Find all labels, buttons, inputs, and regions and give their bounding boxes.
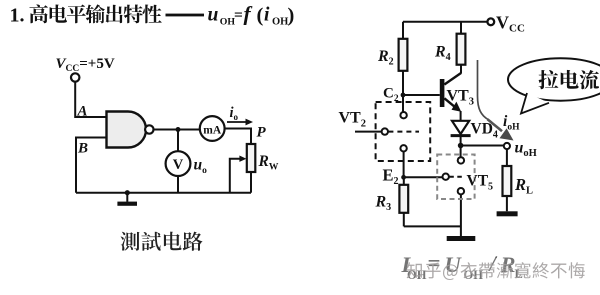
ground (test circuit) xyxy=(125,190,130,195)
svg-text:A: A xyxy=(77,104,88,120)
potentiometer RW wiper arrowhead xyxy=(239,156,246,162)
svg-text:=: = xyxy=(234,7,243,24)
ground (right circuit) xyxy=(447,236,476,241)
wire C2 node down to VT2 box xyxy=(402,95,404,112)
wire VT5 base dashes xyxy=(449,176,464,178)
wire RL stems xyxy=(506,149,508,211)
dashed box VT2 xyxy=(376,102,431,161)
wire E2 node to VT5 base circle xyxy=(404,176,443,178)
svg-text:V: V xyxy=(173,157,184,173)
caption 测试电路 xyxy=(121,232,203,251)
wire R2 stems xyxy=(402,22,404,95)
watermark overlay xyxy=(399,258,600,285)
wire R4 top stem xyxy=(460,22,462,74)
wire diode to output node xyxy=(460,137,462,157)
title formula u_OH = f(i_OH) xyxy=(208,1,295,27)
node E2 junction xyxy=(401,175,406,180)
ground (RL) xyxy=(497,211,518,216)
VT2 emitter circle xyxy=(400,145,406,151)
formula I_OH = U_OH / R_L xyxy=(401,251,523,282)
wire C2 node to VT3 base xyxy=(403,94,440,96)
wire bottom rail xyxy=(76,192,251,194)
transistor VT3 collector xyxy=(444,73,461,85)
resistor R3 xyxy=(399,185,408,213)
potentiometer RW body xyxy=(247,144,256,172)
wire VCC top rail xyxy=(403,21,491,23)
diode VD4 xyxy=(452,121,469,134)
resistor RL xyxy=(503,166,512,196)
wire VCC terminal to A input xyxy=(75,82,106,117)
resistor R2 xyxy=(399,39,408,71)
wire VT3 emitter to diode xyxy=(460,111,462,121)
wire gate output xyxy=(154,129,200,131)
svg-text:P: P xyxy=(257,125,267,141)
NAND gate output bubble xyxy=(145,125,153,133)
wire VT2 base dashes xyxy=(388,131,419,133)
VT5 emitter circle xyxy=(458,188,464,194)
ammeter mA xyxy=(200,116,225,141)
wire V-meter branch xyxy=(177,130,179,193)
wire RW wiper xyxy=(230,159,244,193)
wire RW bottom stem xyxy=(250,172,252,193)
node output junction xyxy=(458,143,464,149)
VCC terminal right xyxy=(487,18,494,25)
title text 1. 高电平输出特性 xyxy=(10,4,205,26)
wire VT2 base left xyxy=(355,131,382,133)
resistor R4 xyxy=(457,34,466,65)
wire bottom to ground xyxy=(404,194,461,236)
wire R3 stems xyxy=(403,177,405,226)
VT2 collector circle xyxy=(400,112,406,118)
voltmeter V u_o xyxy=(166,151,191,176)
VT5 collector circle xyxy=(458,157,464,163)
node C2 junction xyxy=(401,93,406,98)
svg-text:mA: mA xyxy=(203,124,222,136)
transistor VT3 emitter with arrow xyxy=(444,98,456,108)
NAND gate U1 body xyxy=(107,112,147,148)
svg-text:i: i xyxy=(264,4,270,25)
svg-text:1.: 1. xyxy=(10,4,25,26)
output terminal u_oH xyxy=(504,143,510,149)
transistor VT3 base bar xyxy=(440,79,445,107)
VT5 base circle xyxy=(443,174,449,180)
svg-text:OH: OH xyxy=(272,16,288,27)
svg-text:B: B xyxy=(77,141,88,157)
VCC terminal circle xyxy=(71,73,79,81)
wire output node to terminal xyxy=(461,145,504,147)
VT2 base circle xyxy=(382,128,388,134)
dashed box VT5 xyxy=(437,155,474,200)
wire VT2 box to E2 node xyxy=(403,152,405,178)
pull-current arrow xyxy=(478,60,489,120)
wire input B to ground rail xyxy=(76,138,107,193)
speech bubble 拉电流 xyxy=(508,58,600,100)
svg-text:VCC=+5V: VCC=+5V xyxy=(56,56,115,74)
wire mA to P corner and down to RW xyxy=(225,129,251,145)
node gate output junction xyxy=(176,127,181,132)
svg-text:u: u xyxy=(208,4,219,25)
svg-text:): ) xyxy=(288,5,295,27)
svg-text:(: ( xyxy=(257,5,264,27)
